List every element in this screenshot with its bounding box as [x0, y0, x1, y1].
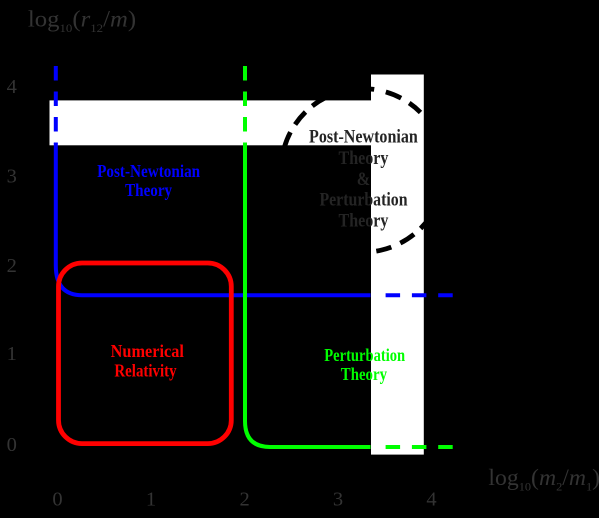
svg-text:2: 2	[7, 255, 17, 277]
svg-text:4: 4	[7, 76, 17, 98]
svg-text:&: &	[357, 168, 370, 190]
svg-text:Perturbation: Perturbation	[319, 188, 407, 210]
svg-text:Perturbation: Perturbation	[324, 345, 405, 366]
svg-text:Post-Newtonian: Post-Newtonian	[97, 161, 201, 182]
svg-text:3: 3	[333, 488, 343, 510]
svg-text:Relativity: Relativity	[114, 360, 177, 381]
svg-text:Theory: Theory	[339, 209, 389, 231]
svg-text:Theory: Theory	[125, 180, 173, 201]
svg-text:1: 1	[146, 488, 156, 510]
svg-text:log10(m2/m1): log10(m2/m1)	[488, 465, 599, 493]
svg-text:0: 0	[52, 488, 62, 510]
svg-text:Numerical: Numerical	[111, 341, 184, 361]
svg-text:2: 2	[239, 488, 249, 510]
svg-text:1: 1	[7, 343, 17, 365]
svg-text:Theory: Theory	[341, 364, 388, 385]
svg-text:3: 3	[7, 166, 17, 188]
svg-text:4: 4	[426, 488, 436, 510]
svg-text:Post-Newtonian: Post-Newtonian	[309, 125, 418, 147]
svg-text:0: 0	[7, 434, 17, 456]
svg-text:Theory: Theory	[339, 147, 389, 169]
svg-text:log10(r12/m): log10(r12/m)	[28, 7, 136, 35]
